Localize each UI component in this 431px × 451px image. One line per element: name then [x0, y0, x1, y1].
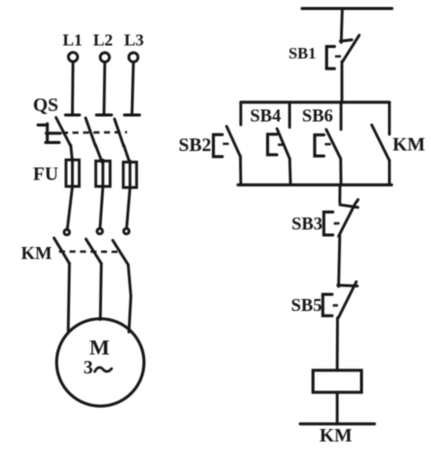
KM contact terminal pole 1	[64, 230, 69, 235]
wire SB5 to coil	[336, 318, 339, 371]
svg-text:3: 3	[84, 358, 94, 379]
wire coil to bottom rail	[336, 392, 339, 424]
QS fixed contact bar pole 3	[125, 114, 140, 117]
wire L2 to QS	[103, 62, 107, 114]
terminal L2	[100, 53, 109, 62]
svg-text:SB5: SB5	[291, 295, 322, 315]
wire FU to KM pole 2	[100, 186, 103, 228]
SB6 actuator dashed link	[325, 143, 333, 145]
SB1 NC blade	[343, 35, 360, 61]
QS fixed contact bar pole 1	[66, 114, 80, 117]
svg-text:FU: FU	[33, 164, 59, 185]
SB6 NO blade	[326, 130, 341, 159]
SB5 button actuator	[323, 294, 332, 315]
svg-text:SB4: SB4	[250, 106, 281, 126]
fuse FU pole 3	[123, 161, 136, 188]
SB5 NC blade	[338, 282, 356, 318]
svg-text:SB6: SB6	[302, 106, 333, 126]
SB3 fixed contact bar	[340, 205, 358, 208]
SB2 NO blade	[227, 126, 241, 156]
wire FU to KM pole 3	[127, 188, 130, 229]
wire QS to FU pole 2	[96, 145, 103, 162]
wire SB1 to parallel group	[340, 62, 343, 103]
svg-text:KM: KM	[21, 243, 52, 263]
wire SB4 to bottom bus	[288, 159, 292, 185]
motor label tilde	[95, 367, 112, 371]
svg-text:L2: L2	[93, 31, 113, 50]
QS blade pole 2	[86, 118, 96, 146]
wire KM to motor pole 2	[100, 264, 101, 320]
SB1 fixed contact bar	[340, 40, 352, 41]
SB3 NC blade	[339, 200, 359, 237]
SB6 upper terminal stub	[340, 102, 343, 129]
top supply rail	[302, 7, 392, 10]
wire KM to motor pole 3	[128, 265, 131, 332]
KM main blade pole 3	[113, 240, 129, 264]
svg-text:KM: KM	[320, 426, 353, 447]
SB6 button actuator	[315, 135, 324, 156]
SB4 button actuator	[268, 134, 277, 155]
SB3 button actuator	[324, 212, 333, 235]
bottom supply rail	[300, 422, 374, 425]
QS blade pole 3	[115, 119, 124, 146]
wire group to SB3	[338, 185, 341, 203]
wire rail to SB1	[341, 9, 342, 43]
KM main blade pole 1	[54, 238, 69, 264]
QS fixed contact bar pole 2	[97, 114, 112, 117]
SB5 fixed contact bar	[338, 284, 358, 288]
SB3 actuator dashed link	[334, 222, 340, 225]
terminal L3	[129, 53, 138, 62]
wire KM contact to bottom bus	[388, 161, 391, 185]
wire KM to motor pole 1	[68, 264, 69, 332]
KM main blade pole 2	[86, 239, 101, 264]
contactor coil KM	[313, 370, 362, 392]
KM auxiliary upper stub	[388, 102, 391, 134]
svg-text:SB3: SB3	[292, 214, 323, 234]
svg-text:L1: L1	[63, 31, 83, 50]
SB2 upper terminal stub	[239, 102, 242, 125]
svg-text:QS: QS	[33, 95, 58, 116]
wire FU to KM pole 1	[67, 186, 72, 229]
SB4 upper terminal stub	[288, 102, 291, 127]
QS blade pole 1	[56, 118, 71, 147]
wire L1 to QS	[71, 62, 74, 114]
QS linkage dashed line	[62, 131, 127, 134]
wire QS to FU pole 3	[124, 145, 130, 163]
fuse FU pole 2	[96, 160, 110, 187]
SB4 actuator dashed link	[278, 143, 287, 145]
wire SB6 to bottom bus	[339, 159, 342, 185]
SB2 button actuator	[213, 135, 222, 157]
svg-text:M: M	[89, 336, 109, 360]
wire SB3 to SB5	[339, 235, 340, 287]
wire L3 to QS	[132, 62, 133, 114]
KM contact terminal pole 3	[124, 229, 129, 234]
wire SB2 to bottom bus	[239, 156, 242, 185]
SB5 actuator dashed link	[333, 304, 338, 307]
svg-text:SB2: SB2	[179, 135, 212, 156]
KM contact terminal pole 2	[97, 229, 102, 234]
wire QS to FU pole 1	[71, 145, 73, 161]
svg-text:SB1: SB1	[289, 46, 317, 63]
SB1 actuator dashed link	[335, 55, 346, 58]
fuse FU pole 1	[66, 159, 79, 187]
KM linkage dashed line	[59, 250, 119, 253]
SB1 button actuator	[327, 47, 335, 69]
QS operating handle	[38, 124, 60, 143]
parallel group bottom bus	[238, 183, 392, 186]
SB2 actuator dashed link	[223, 143, 233, 145]
svg-text:KM: KM	[393, 135, 426, 156]
parallel group top bus	[241, 101, 390, 104]
SB4 NO blade	[277, 129, 290, 159]
svg-text:L3: L3	[124, 31, 144, 50]
KM auxiliary NO blade	[372, 125, 390, 161]
motor M	[57, 319, 144, 406]
terminal L1	[68, 52, 77, 61]
